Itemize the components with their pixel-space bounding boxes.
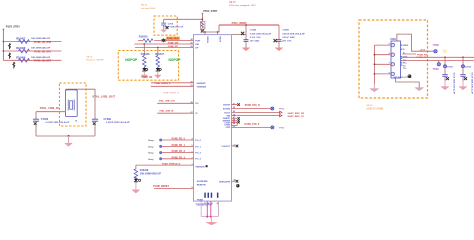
svg-text:XTAL_USB_IN: XTAL_USB_IN (40, 106, 59, 110)
wire bottom pin 2 (206, 201, 208, 217)
svg-text:PO_3: PO_3 (195, 159, 201, 161)
wire DP row (135, 47, 194, 49)
svg-text:Resistors - NOPOP: Resistors - NOPOP (87, 59, 105, 62)
node junction bus p4 (374, 73, 376, 75)
connector pin circle 2 (391, 53, 394, 56)
svg-text:C7668: C7668 (282, 30, 289, 32)
svg-text:PU4B_HS_DP1: PU4B_HS_DP1 (34, 50, 52, 53)
wire SSRXP stub (NC) (232, 117, 238, 119)
node junction DP (157, 47, 159, 49)
svg-text:PU4B_PWRGD_N: PU4B_PWRGD_N (162, 162, 181, 165)
svg-text:P3V3_STBY: P3V3_STBY (203, 10, 218, 13)
svg-text:PU4B_STX_N: PU4B_STX_N (245, 104, 260, 107)
node junction P3V3/cap (202, 18, 204, 20)
wire conn pin1 (374, 44, 391, 46)
U1 pin numbers right (233, 103, 237, 181)
svg-text:HSDN2P: HSDN2P (197, 83, 206, 85)
svg-text:PO_2: PO_2 (195, 153, 201, 155)
wire PWRGD (136, 164, 194, 166)
node junction DM (143, 43, 145, 45)
strap PO_1 (148, 144, 193, 149)
wire conn pin3 (374, 63, 391, 65)
wire P3V3 drop (201, 14, 203, 22)
node junction EP p3 (210, 216, 212, 218)
capacitor C7399 (92, 118, 130, 125)
wire RESET (154, 187, 194, 189)
USB3 connector box (orange dashed) (359, 20, 428, 98)
diode dark left (142, 67, 148, 71)
svg-text:NOPOP: NOPOP (169, 58, 182, 62)
resistor R16408 (16, 46, 51, 53)
svg-text:C7399: C7399 (104, 118, 112, 121)
svg-text:CLKOUT: CLKOUT (221, 146, 230, 148)
resistor R16410 series PUR (139, 36, 153, 43)
svg-text:XTAL_USB_OUT: XTAL_USB_OUT (159, 100, 176, 103)
wire VBUS loop over connector (397, 34, 434, 51)
svg-text:TX-: TX- (403, 65, 406, 67)
svg-text:VDD33: VDD33 (206, 36, 208, 44)
ground conn left (370, 84, 379, 92)
svg-text:10K-OHM-0402-UP: 10K-OHM-0402-UP (31, 37, 51, 40)
wire XTAL_USB_OUT stub (157, 102, 193, 104)
wire cap box to P3V3 (164, 18, 203, 20)
wire CRX to TP63 (232, 126, 271, 128)
svg-text:PUR: PUR (195, 40, 200, 42)
wire row2 (3, 50, 61, 52)
ground C7666 (242, 48, 250, 51)
component dark jumper under row1 (9, 43, 11, 49)
svg-text:PU4B_CTX_P: PU4B_CTX_P (245, 123, 260, 126)
svg-text:XTAL_USB_IN: XTAL_USB_IN (159, 110, 174, 113)
wire UART TX (232, 115, 280, 117)
component X mark C7671 (446, 77, 449, 80)
crystal Y1 (65, 88, 78, 122)
cap DNI box (orange dashed) top-center (154, 16, 177, 35)
svg-text:C7400: C7400 (41, 118, 49, 121)
component X NC SSRXM (238, 119, 240, 121)
svg-text:PU4B_PO_1: PU4B_PO_1 (172, 144, 186, 147)
svg-text:R16407: R16407 (16, 37, 26, 41)
svg-text:PU4B_PUR: PU4B_PUR (167, 37, 180, 40)
node P3V3_STBY (left power label) (2, 25, 20, 29)
svg-text:16V 0402: 16V 0402 (250, 40, 260, 43)
svg-text:NOPOP: NOPOP (125, 58, 138, 62)
node P3V3_STBY (top center) (201, 10, 218, 14)
svg-text:0.01UF-CER-CK0-A-UP: 0.01UF-CER-CK0-A-UP (282, 32, 305, 35)
component X mark near cap2 (274, 39, 277, 42)
svg-text:15: 15 (75, 121, 78, 123)
node black dot marker (236, 184, 239, 187)
wire NOPOP left drop (143, 44, 145, 56)
resistor R16448 pulldown (134, 165, 161, 180)
svg-text:25V 10%: 25V 10% (282, 41, 291, 43)
svg-text:PU4B_HSDN2_R: PU4B_HSDN2_R (155, 82, 171, 85)
svg-text:R16410: R16410 (139, 36, 148, 39)
node junction row1 (3, 41, 5, 43)
capacitor C7668 (277, 25, 306, 48)
wire shield to ground (396, 78, 420, 88)
wire conn pin2 (374, 54, 391, 56)
wire conn gnd bus (373, 45, 375, 84)
svg-text:R16408: R16408 (16, 46, 26, 50)
svg-text:10K-OHM-0402-UP: 10K-OHM-0402-UP (31, 56, 51, 59)
svg-text:XO: XO (195, 103, 198, 105)
svg-text:PU4B_DP: PU4B_DP (168, 45, 179, 48)
svg-text:0.01UF-CER-C0G-A-UP: 0.01UF-CER-C0G-A-UP (106, 121, 130, 124)
annotation orange USB3 conn (367, 105, 384, 111)
wire pin stub VBUS (217, 32, 219, 35)
svg-text:11: 11 (204, 203, 206, 205)
node junction bus p3 (374, 63, 376, 65)
strap PO_2 (148, 150, 193, 155)
node junction railB cap (462, 56, 464, 58)
svg-text:PU4B: PU4B (197, 199, 203, 202)
svg-text:PU4B_HS_DET: PU4B_HS_DET (34, 60, 52, 63)
wire P3V3_STBY vertical bus left (2, 30, 4, 61)
wire rail A (402, 56, 474, 58)
component X NC SSTXP (237, 103, 240, 106)
test point TP62 (271, 107, 285, 110)
connector pin circle 1 (391, 43, 394, 46)
shield symbol dark (408, 74, 412, 78)
resistor R16447 (NOPOP) (155, 53, 164, 67)
wire UART RX (232, 111, 280, 113)
test point TP68 (433, 44, 440, 47)
node junction rail cap1 (245, 24, 247, 26)
node junction row2 (3, 50, 5, 52)
svg-text:TP69: TP69 (433, 68, 440, 71)
wire conn pin4 (374, 73, 391, 75)
svg-text:0.01uF 0402: 0.01uF 0402 (282, 36, 295, 39)
wire pin stub VDD (204, 32, 206, 35)
svg-text:XI: XI (195, 113, 197, 115)
annotation orange SE15 left (141, 4, 156, 9)
ground pulldown (132, 183, 140, 194)
wire rail B (402, 60, 474, 62)
svg-text:SSTXM: SSTXM (223, 108, 230, 110)
svg-text:TP68: TP68 (433, 44, 440, 47)
capacitor C7400 (33, 118, 70, 125)
svg-text:0.1UF-CER-CK0-A-UP: 0.1UF-CER-CK0-A-UP (250, 32, 272, 35)
svg-text:XTAL_USB_OUT: XTAL_USB_OUT (92, 95, 115, 99)
component dark jumper under row2 (9, 53, 11, 59)
wire IC top-right pin to rail (232, 25, 247, 35)
svg-text:PU4B_HS_DN1: PU4B_HS_DN1 (34, 41, 52, 44)
connector pin circle 4 (391, 72, 394, 75)
annotation orange NOPOP note (87, 56, 105, 61)
svg-text:Strap: Strap (148, 139, 154, 142)
wire XTAL_USB_IN stub (157, 112, 193, 114)
svg-text:DP: DP (195, 47, 199, 49)
wire bottom pin 1 (200, 201, 202, 217)
U1 pin numbers bottom (204, 202, 220, 205)
ground C7671 (441, 81, 449, 90)
svg-text:Strap: Strap (148, 145, 154, 148)
wire xtal out top (66, 89, 95, 136)
node junction bus p2 (374, 54, 376, 56)
component X NC SSRXP (238, 117, 240, 119)
svg-text:PU4B_RX: PU4B_RX (417, 54, 428, 57)
capacitor C7671 branch (442, 57, 454, 81)
svg-text:TX+: TX+ (403, 68, 407, 70)
node red labels at conn (417, 54, 428, 60)
U1 pin name texts right column (219, 105, 231, 184)
connector right pin names (403, 45, 409, 70)
svg-text:SHIELDPW: SHIELDPW (219, 181, 230, 183)
strap PO_3 (148, 156, 193, 161)
NOPOP box (orange dashed) (118, 51, 178, 81)
wire NOPOP right drop (157, 48, 159, 56)
node junction railA cap (444, 56, 446, 58)
ground C7672 (459, 81, 467, 90)
U1 bottom pin bars (204, 193, 218, 198)
svg-text:R16446: R16446 (141, 53, 150, 56)
annotation red SE15 right (229, 2, 256, 7)
wire bottom bus (201, 216, 218, 218)
test point TP63 (271, 126, 285, 130)
node junction EP p2 (206, 216, 208, 218)
resistor R16409 (16, 55, 51, 62)
svg-text:VREGEN: VREGEN (195, 166, 205, 168)
wire rail P3V3_USB30 (219, 24, 279, 26)
svg-text:usb cap 100nF: usb cap 100nF (141, 8, 156, 10)
node port arrow RX (280, 111, 282, 113)
component X NC VREG (236, 145, 239, 148)
component X NC SHIELD (236, 180, 239, 183)
svg-text:RX+: RX+ (403, 62, 408, 64)
svg-text:C7671: C7671 (447, 66, 454, 68)
svg-text:0.1UF-CER-C0G-A-UP: 0.1UF-CER-C0G-A-UP (470, 73, 473, 95)
svg-text:+5.0V: +5.0V (420, 49, 426, 51)
diode dark right (156, 67, 162, 71)
component X mark near cap1 (241, 32, 244, 35)
component dark bead PUR (162, 39, 166, 42)
svg-text:10K-OHM-0402-UP: 10K-OHM-0402-UP (31, 47, 51, 50)
wire SSRXM stub (NC) (232, 119, 238, 121)
ground xtal (65, 136, 73, 146)
wire bottom pin 3 (210, 201, 212, 217)
wire PUR row (138, 40, 194, 42)
node junction pin VDD (204, 31, 206, 33)
svg-text:Strap: Strap (148, 158, 154, 161)
svg-text:PU4B_PO_0: PU4B_PO_0 (172, 138, 186, 141)
op-amp U1 TUSB8041 hub IC body (194, 35, 232, 202)
ground bottom EP (206, 217, 217, 225)
U1 conn pin numbers (389, 44, 391, 75)
svg-text:D-: D- (403, 49, 405, 51)
capacitor C768 (161, 19, 184, 28)
strap PO_0 (148, 138, 193, 143)
svg-text:SOUT: SOUT (224, 112, 231, 114)
wire conn stub D (402, 53, 416, 55)
wire bottom pin 4 (217, 201, 219, 217)
connector right pads (401, 45, 403, 66)
resistor R16446 (NOPOP) (141, 53, 150, 67)
svg-text:UART_BMC_TX: UART_BMC_TX (288, 115, 305, 118)
node junction pin VBUS (217, 31, 219, 33)
wire SHIELD stub (NC) (232, 180, 236, 182)
wire HSDN2M (151, 85, 194, 87)
svg-text:Strap: Strap (148, 152, 154, 155)
component X mark on C768 (166, 26, 169, 29)
svg-text:SIN: SIN (227, 116, 231, 118)
wire row3 (3, 59, 61, 61)
svg-text:SSTXP: SSTXP (223, 105, 230, 107)
svg-text:SE 15: SE 15 (87, 56, 93, 58)
svg-text:TP62: TP62 (279, 108, 285, 110)
wire row1 (3, 41, 61, 43)
svg-text:PU4B_RESET: PU4B_RESET (153, 185, 169, 188)
wire P3V3 to pins (202, 25, 219, 32)
svg-text:PU4B_HSUP2_R: PU4B_HSUP2_R (163, 91, 179, 94)
U1 pin numbers left (190, 39, 193, 189)
ground C768 (161, 27, 166, 32)
svg-text:PO_0: PO_0 (195, 140, 201, 142)
svg-text:PO_1: PO_1 (195, 146, 201, 148)
test point TP68 ring (434, 49, 447, 54)
svg-text:0.1UF-CER-C0G-A-UP: 0.1UF-CER-C0G-A-UP (452, 73, 455, 95)
U1 vertical pin names top (206, 36, 221, 44)
node red box on pin 23 (232, 122, 237, 125)
capacitor C7666 (244, 30, 272, 48)
ground arrow NOPOP right (155, 72, 161, 78)
svg-text:CRX: CRX (226, 127, 231, 129)
svg-text:SE 15: SE 15 (141, 4, 148, 6)
resistor R16407 (16, 37, 52, 44)
wire CTXP stub (NC) (232, 121, 238, 123)
svg-text:C768: C768 (168, 23, 174, 25)
wire SSTXM to TP62 (232, 108, 271, 110)
wire xtal bottom bus (36, 135, 95, 137)
wire left cap branch (35, 112, 37, 136)
svg-text:RESETN: RESETN (197, 185, 206, 187)
wire HSDN2P (151, 82, 194, 84)
connector pin circle 3 (391, 63, 394, 66)
svg-text:VBUS: VBUS (218, 36, 220, 42)
ferrite bead FB (DNI) on P3V3 (201, 21, 205, 29)
svg-text:PU4B_DM: PU4B_DM (168, 42, 179, 45)
svg-text:R16409: R16409 (16, 55, 26, 59)
svg-text:PCIe lane swapped - OK?: PCIe lane swapped - OK? (229, 5, 256, 7)
component dark jumper under row3 (13, 62, 15, 69)
ground C7668 (275, 48, 283, 51)
wire xtal in (36, 111, 65, 113)
svg-text:VBUS: VBUS (403, 45, 409, 47)
svg-text:C7666: C7666 (250, 30, 257, 32)
node port arrow TX (280, 114, 282, 116)
svg-text:HSDN2M: HSDN2M (197, 87, 206, 89)
svg-text:UART_BMC_RX: UART_BMC_RX (288, 112, 305, 115)
svg-text:P3V3_STBY: P3V3_STBY (6, 25, 21, 28)
svg-text:USB 3.0 CONN: USB 3.0 CONN (367, 107, 384, 110)
svg-text:0.1uF 10%: 0.1uF 10% (250, 37, 261, 39)
ground conn shield (415, 88, 424, 91)
connector CN3 body (390, 37, 400, 78)
svg-text:SE 15: SE 15 (229, 2, 236, 4)
svg-text:0.01UF-CER-C0G-A-UP: 0.01UF-CER-C0G-A-UP (46, 121, 70, 124)
capacitor C7672 branch (460, 57, 472, 81)
test point TP69 (433, 61, 441, 72)
wire VREG stub (NC) (232, 145, 236, 147)
svg-text:PU4B_PO_3: PU4B_PO_3 (172, 156, 186, 159)
svg-text:C7672: C7672 (465, 66, 472, 68)
svg-text:TP63: TP63 (279, 128, 285, 130)
svg-text:PU4B_D2: PU4B_D2 (142, 76, 153, 79)
svg-text:PU4B_PO_2: PU4B_PO_2 (172, 150, 186, 153)
ground arrow NOPOP left (141, 72, 147, 78)
component X NC CTXP (238, 121, 240, 123)
wire SSTXP stub (NC) (232, 104, 238, 106)
svg-text:DM: DM (195, 44, 199, 46)
crystal DNI box (orange dashed) (60, 83, 87, 126)
U1 pin name texts left column (195, 40, 208, 186)
wire DM row (134, 43, 193, 45)
svg-text:SLEEPIND: SLEEPIND (197, 181, 208, 183)
component X mark on FB (201, 30, 204, 33)
svg-text:10K-OHM-0402-UP: 10K-OHM-0402-UP (140, 172, 161, 175)
node PU4B_PUR label (orange flag) (166, 37, 180, 41)
node junction bus (68, 135, 70, 137)
svg-text:P3V3_USB30: P3V3_USB30 (232, 22, 248, 25)
diode dark pulldown (134, 177, 141, 182)
component X mark C7672 (464, 77, 467, 80)
